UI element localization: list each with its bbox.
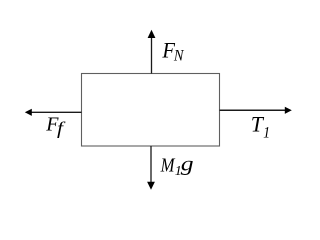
svg-text:1: 1 [263, 124, 270, 141]
svg-text:g: g [181, 152, 194, 176]
svg-text:N: N [173, 47, 185, 64]
svg-text:M: M [160, 155, 176, 176]
